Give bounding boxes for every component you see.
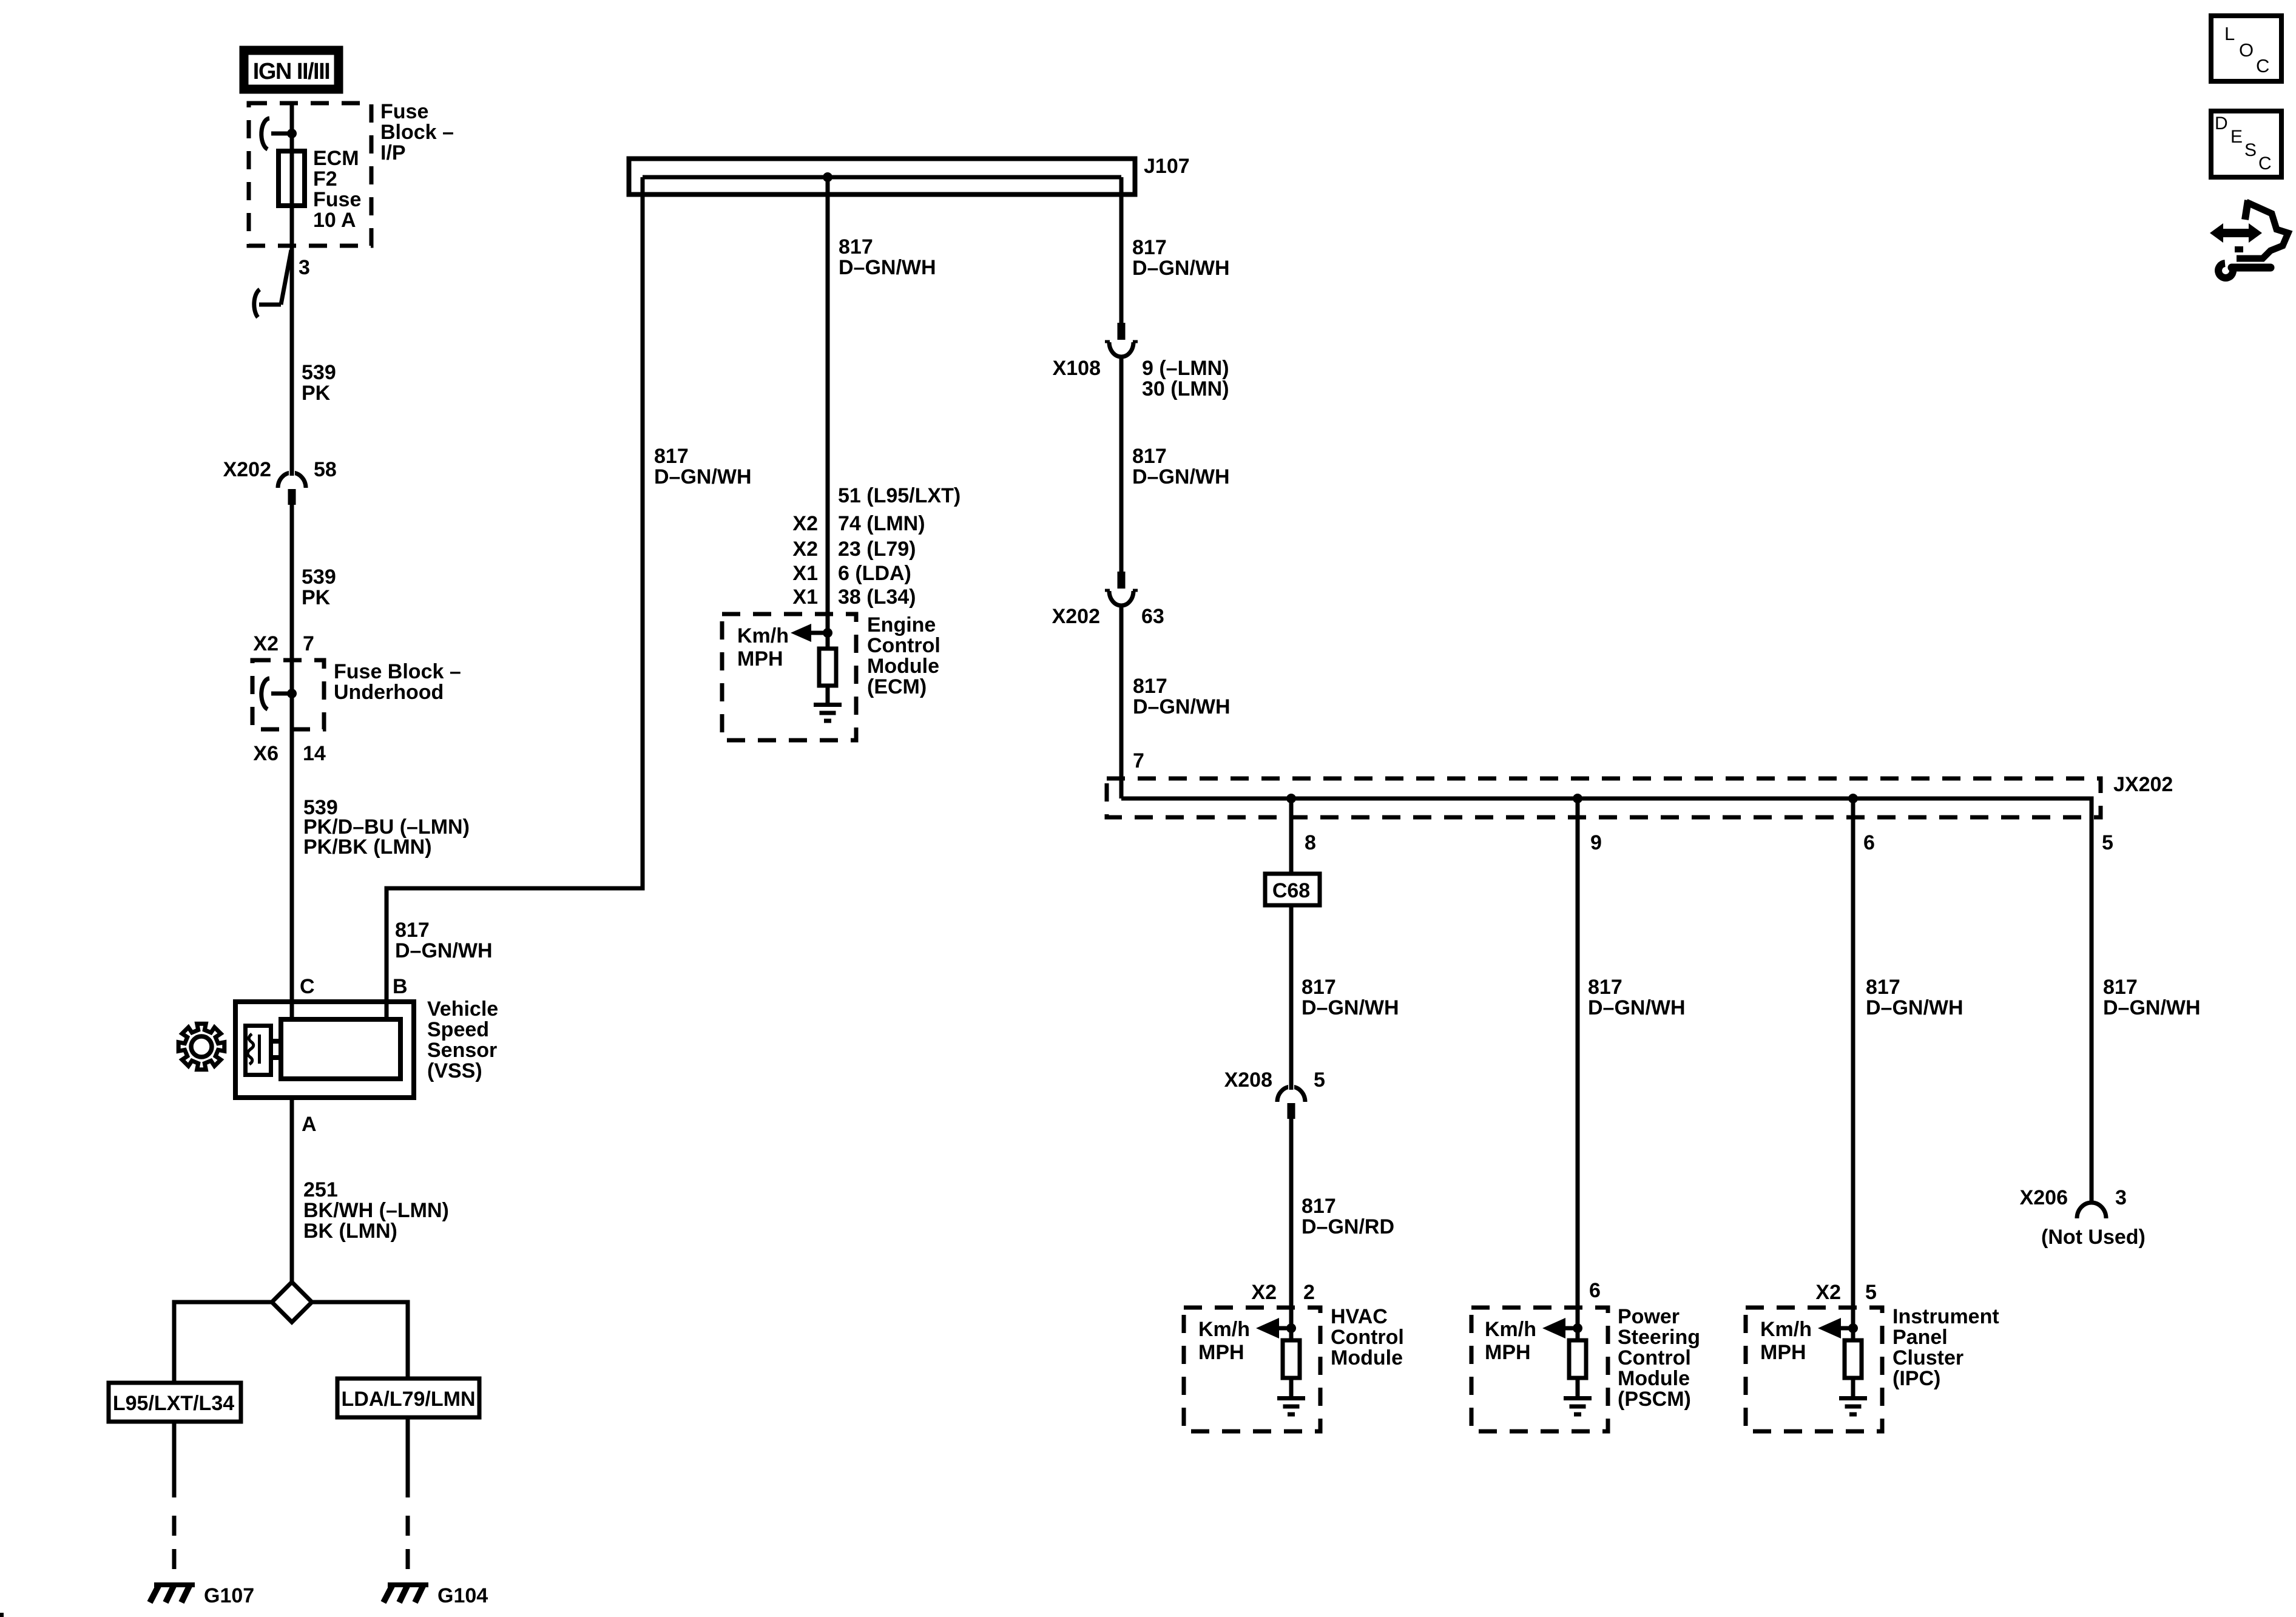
svg-text:IGN II/III: IGN II/III xyxy=(253,59,329,84)
wire label 817 D-GN/WH (C68 branch) xyxy=(1302,976,1399,1019)
PSCM: internal ground xyxy=(1564,1378,1592,1414)
PSCM: speed signal resistor xyxy=(1569,1328,1586,1378)
svg-text:D: D xyxy=(2215,113,2228,133)
fuse F2 10A xyxy=(279,151,305,206)
fuse block I/P dashed box xyxy=(249,103,371,246)
svg-text:6: 6 xyxy=(1863,831,1875,854)
wire: C68 to X208 xyxy=(1289,905,1294,1086)
svg-text:X206: X206 xyxy=(2020,1186,2068,1209)
engine option box LDA/L79/LMN xyxy=(337,1379,479,1417)
PSCM: Km/h-MPH arrow xyxy=(1485,1318,1582,1364)
svg-text:(VSS): (VSS) xyxy=(427,1059,482,1082)
wire: splice to L95 branch xyxy=(174,1302,272,1383)
svg-text:Module: Module xyxy=(867,655,939,678)
junction to pin 9 xyxy=(1573,794,1582,803)
wire label 251 BK/WH BK xyxy=(303,1178,449,1243)
svg-text:Km/h: Km/h xyxy=(1198,1318,1250,1341)
svg-text:5: 5 xyxy=(1865,1281,1877,1304)
DESC reference icon xyxy=(2211,111,2281,177)
fuse F2 label xyxy=(313,147,361,232)
svg-text:LDA/L79/LMN: LDA/L79/LMN xyxy=(342,1388,476,1411)
svg-text:Panel: Panel xyxy=(1893,1326,1948,1349)
wire: IGN feed into fuse xyxy=(290,103,294,151)
ECM Km/h-MPH arrow xyxy=(737,624,832,670)
svg-text:JX202: JX202 xyxy=(2113,773,2173,796)
connector X206 labels xyxy=(2020,1186,2146,1249)
VSS pickup coil box xyxy=(246,1026,271,1075)
svg-text:Fuse: Fuse xyxy=(313,188,361,211)
VSS inner body xyxy=(281,1019,400,1079)
HVAC: speed signal resistor xyxy=(1283,1328,1300,1378)
vehicle speed sensor VSS outer case xyxy=(235,1002,414,1098)
svg-text:G107: G107 xyxy=(204,1584,254,1607)
power feed label IGN II/III xyxy=(244,50,339,89)
svg-text:5: 5 xyxy=(2102,831,2113,854)
svg-text:D–GN/RD: D–GN/RD xyxy=(1302,1215,1394,1238)
wire label 817 D-GN/WH (VSS B) xyxy=(395,919,493,962)
JX202 internal bus xyxy=(1121,798,2092,1203)
svg-text:Instrument: Instrument xyxy=(1893,1305,1999,1328)
svg-text:Sensor: Sensor xyxy=(427,1039,497,1062)
wire label 817 D-GN/WH (into JX202) xyxy=(1133,675,1231,718)
wire: 817 branch to VSS pin B xyxy=(387,177,643,1017)
IPC label xyxy=(1893,1305,1999,1390)
svg-text:C: C xyxy=(300,975,315,998)
wire label 817 D-GN/WH (ECM branch) xyxy=(839,235,936,279)
svg-text:L: L xyxy=(2224,23,2235,44)
pin X2 / 5 (IPC) xyxy=(1815,1281,1877,1304)
svg-text:Km/h: Km/h xyxy=(1485,1318,1536,1341)
svg-text:51 (L95/LXT): 51 (L95/LXT) xyxy=(838,484,961,507)
svg-text:Speed: Speed xyxy=(427,1018,489,1041)
LOC reference icon xyxy=(2211,16,2281,81)
IPC: internal ground xyxy=(1839,1378,1867,1414)
svg-text:539: 539 xyxy=(302,565,336,589)
VSS label xyxy=(427,998,498,1082)
svg-text:X208: X208 xyxy=(1224,1068,1272,1092)
svg-text:X2: X2 xyxy=(792,538,818,561)
wire: JX202 pin 6 to IPC xyxy=(1851,798,1855,1328)
svg-text:MPH: MPH xyxy=(1198,1341,1244,1364)
svg-text:D–GN/WH: D–GN/WH xyxy=(1132,257,1230,280)
junction to pin 6 xyxy=(1848,794,1858,803)
svg-text:539: 539 xyxy=(302,361,336,384)
wire label 817 D-GN/WH (X206 branch) xyxy=(2103,976,2201,1019)
svg-text:5: 5 xyxy=(1314,1068,1325,1092)
wire: X202-63 into JX202 xyxy=(1119,606,1124,798)
svg-text:7: 7 xyxy=(303,632,314,655)
svg-text:D–GN/WH: D–GN/WH xyxy=(1588,996,1686,1019)
svg-text:D–GN/WH: D–GN/WH xyxy=(839,256,936,279)
svg-text:C: C xyxy=(2258,154,2272,174)
J107 internal bus wire xyxy=(643,175,1121,180)
wire label 817 D-GN/WH (PSCM branch) xyxy=(1588,976,1686,1019)
fuse block underhood dashed box xyxy=(252,660,324,729)
pin X6 / 14 xyxy=(253,742,326,765)
HVAC: Km/h-MPH arrow xyxy=(1198,1318,1296,1364)
svg-text:D–GN/WH: D–GN/WH xyxy=(1302,996,1399,1019)
in-line connector C68 xyxy=(1265,874,1320,905)
svg-text:D–GN/WH: D–GN/WH xyxy=(2103,996,2201,1019)
connector X202/58 labels xyxy=(223,458,337,481)
svg-text:9 (–LMN): 9 (–LMN) xyxy=(1142,357,1229,380)
connector X202/63 labels xyxy=(1052,605,1164,628)
svg-text:D–GN/WH: D–GN/WH xyxy=(654,465,752,488)
IPC: Km/h-MPH arrow xyxy=(1760,1318,1858,1364)
svg-text:817: 817 xyxy=(1302,1195,1336,1218)
svg-text:Cluster: Cluster xyxy=(1893,1346,1963,1369)
connector X206 pin 3 (not used) xyxy=(2077,1203,2106,1218)
svg-text:X2: X2 xyxy=(253,632,279,655)
svg-text:817: 817 xyxy=(839,235,873,258)
svg-text:L95/LXT/L34: L95/LXT/L34 xyxy=(113,1392,234,1415)
wire label 817 D-GN/RD xyxy=(1302,1195,1394,1238)
svg-text:817: 817 xyxy=(395,919,430,942)
svg-text:817: 817 xyxy=(1132,236,1167,259)
svg-text:A: A xyxy=(302,1113,317,1136)
svg-text:J107: J107 xyxy=(1144,155,1190,178)
wire: X108 to X202-63 xyxy=(1119,357,1124,573)
HVAC control module dashed box xyxy=(1184,1308,1320,1431)
wire label 539 PK/D-BU PK/BK xyxy=(303,796,470,859)
svg-text:58: 58 xyxy=(314,458,337,481)
wire label 817 D-GN/WH (left drop) xyxy=(654,445,752,488)
svg-text:X202: X202 xyxy=(223,458,271,481)
svg-text:(IPC): (IPC) xyxy=(1893,1367,1940,1390)
svg-text:Km/h: Km/h xyxy=(737,624,789,647)
svg-text:X2: X2 xyxy=(792,512,818,535)
splice pack J107 housing xyxy=(629,159,1135,195)
svg-text:7: 7 xyxy=(1133,749,1144,772)
svg-text:251: 251 xyxy=(303,1178,338,1201)
svg-text:X1: X1 xyxy=(792,586,818,609)
wire: VSS pin A to splice xyxy=(290,1098,294,1284)
wire label 817 D-GN/WH (mid right) xyxy=(1132,445,1230,488)
wire label 817 D-GN/WH (IPC branch) xyxy=(1866,976,1963,1019)
svg-text:Module: Module xyxy=(1331,1346,1403,1369)
PSCM label xyxy=(1618,1305,1700,1411)
ECM pin list xyxy=(792,484,961,609)
fuse block output tap xyxy=(254,250,291,317)
junction to pin 8 xyxy=(1286,794,1296,803)
wire: J107 to ECM xyxy=(826,177,830,633)
ground G107 xyxy=(150,1584,254,1607)
svg-text:Fuse: Fuse xyxy=(380,100,428,123)
connector X108 pin 9/30 xyxy=(1105,323,1138,357)
engine option box L95/LXT/L34 xyxy=(109,1383,241,1422)
svg-text:817: 817 xyxy=(1133,675,1167,698)
svg-text:D–GN/WH: D–GN/WH xyxy=(1133,695,1231,718)
VSS drive gear icon xyxy=(178,1024,225,1070)
svg-text:817: 817 xyxy=(1866,976,1900,999)
wire label 539 PK (2) xyxy=(302,565,336,609)
svg-text:Module: Module xyxy=(1618,1367,1690,1390)
wire label 539 PK xyxy=(302,361,336,405)
svg-text:9: 9 xyxy=(1590,831,1602,854)
svg-text:Engine: Engine xyxy=(867,613,936,636)
ECM internal ground xyxy=(814,686,842,721)
svg-text:10 A: 10 A xyxy=(313,209,356,232)
wire through underhood block xyxy=(290,660,294,729)
ECM label xyxy=(867,613,940,698)
wire: L95 box to G107 (part solid, part dashed) xyxy=(172,1422,177,1585)
wire: X208 to HVAC module xyxy=(1289,1118,1294,1328)
ECM speed signal resistor xyxy=(819,633,836,686)
junction on J107 bus xyxy=(823,172,832,182)
splice diamond xyxy=(272,1282,312,1322)
svg-text:14: 14 xyxy=(303,742,326,765)
ground G104 xyxy=(383,1584,488,1607)
svg-text:D–GN/WH: D–GN/WH xyxy=(1866,996,1963,1019)
svg-text:8: 8 xyxy=(1305,831,1316,854)
svg-text:(Not Used): (Not Used) xyxy=(2041,1226,2146,1249)
HVAC label xyxy=(1331,1305,1404,1369)
svg-text:3: 3 xyxy=(299,256,310,279)
connector X208 pin 5 xyxy=(1277,1081,1305,1119)
svg-text:S: S xyxy=(2244,140,2257,160)
svg-text:(ECM): (ECM) xyxy=(867,675,927,698)
svg-text:F2: F2 xyxy=(313,167,337,191)
PSCM dashed box xyxy=(1471,1308,1608,1431)
IPC dashed box xyxy=(1746,1308,1882,1431)
splice pack JX202 dashed housing xyxy=(1107,778,2101,817)
wire: X202-58 to underhood fuse block xyxy=(290,504,294,660)
svg-text:Block –: Block – xyxy=(380,121,454,144)
svg-text:Control: Control xyxy=(1618,1346,1691,1369)
wire: splice to LDA branch xyxy=(312,1302,408,1379)
svg-text:Fuse Block –: Fuse Block – xyxy=(334,660,461,683)
wire: fuse output xyxy=(290,206,294,472)
svg-text:23 (L79): 23 (L79) xyxy=(838,538,916,561)
connector X202 pin 58 xyxy=(278,467,306,505)
svg-text:PK: PK xyxy=(302,586,331,609)
svg-text:PK/BK (LMN): PK/BK (LMN) xyxy=(303,836,432,859)
wire: J107 right drop to X108 xyxy=(1119,177,1124,324)
svg-text:O: O xyxy=(2239,39,2254,61)
svg-text:817: 817 xyxy=(1588,976,1622,999)
svg-text:63: 63 xyxy=(1141,605,1164,628)
svg-text:X202: X202 xyxy=(1052,605,1100,628)
svg-text:D–GN/WH: D–GN/WH xyxy=(1132,465,1230,488)
underhood fuse block tap xyxy=(262,678,297,709)
wire: JX202 pin 8 to C68 xyxy=(1289,798,1294,872)
svg-text:MPH: MPH xyxy=(1760,1341,1806,1364)
svg-text:Vehicle: Vehicle xyxy=(427,998,498,1021)
wire: underhood block to VSS pin C xyxy=(290,729,294,1017)
svg-text:MPH: MPH xyxy=(737,647,783,670)
svg-text:(PSCM): (PSCM) xyxy=(1618,1388,1691,1411)
svg-text:Km/h: Km/h xyxy=(1760,1318,1812,1341)
svg-text:6: 6 xyxy=(1589,1279,1601,1302)
svg-text:X6: X6 xyxy=(253,742,279,765)
svg-text:817: 817 xyxy=(1132,445,1167,468)
svg-text:6 (LDA): 6 (LDA) xyxy=(838,562,911,585)
svg-text:Control: Control xyxy=(867,634,940,657)
HVAC: internal ground xyxy=(1277,1378,1305,1414)
connector X208 labels xyxy=(1224,1068,1325,1092)
svg-text:C: C xyxy=(2256,55,2269,76)
svg-text:817: 817 xyxy=(2103,976,2138,999)
connector X202 pin 63 xyxy=(1105,572,1138,606)
svg-text:HVAC: HVAC xyxy=(1331,1305,1388,1328)
svg-text:3: 3 xyxy=(2115,1186,2127,1209)
svg-text:2: 2 xyxy=(1303,1281,1315,1304)
wire: JX202 pin 9 to PSCM xyxy=(1576,798,1580,1328)
svg-text:74 (LMN): 74 (LMN) xyxy=(838,512,925,535)
svg-text:38 (L34): 38 (L34) xyxy=(838,586,916,609)
diagnostic (arrow/connector/wrench) icon xyxy=(2210,200,2288,278)
svg-text:Steering: Steering xyxy=(1618,1326,1700,1349)
svg-text:X2: X2 xyxy=(1815,1281,1841,1304)
VSS coil stubs xyxy=(271,1041,281,1058)
svg-text:B: B xyxy=(393,975,408,998)
fuse block tap (battery side) xyxy=(262,118,297,149)
svg-text:D–GN/WH: D–GN/WH xyxy=(395,939,493,962)
svg-text:BK/WH (–LMN): BK/WH (–LMN) xyxy=(303,1199,449,1222)
svg-text:Control: Control xyxy=(1331,1326,1404,1349)
svg-text:X2: X2 xyxy=(1251,1281,1277,1304)
svg-text:E: E xyxy=(2230,127,2243,147)
svg-text:X108: X108 xyxy=(1053,357,1101,380)
wire label 817 D-GN/WH (top right) xyxy=(1132,236,1230,280)
svg-text:ECM: ECM xyxy=(313,147,359,170)
ECM dashed box xyxy=(722,614,856,740)
svg-text:Underhood: Underhood xyxy=(334,681,444,704)
pin X2 / 7 xyxy=(253,632,314,655)
svg-text:PK: PK xyxy=(302,382,331,405)
pin X2 / 2 (HVAC) xyxy=(1251,1281,1315,1304)
svg-text:X1: X1 xyxy=(792,562,818,585)
fuse block I/P label xyxy=(380,100,454,164)
svg-text:MPH: MPH xyxy=(1485,1341,1531,1364)
stray page dot xyxy=(0,1613,4,1617)
wire: LDA box to G104 xyxy=(406,1417,410,1585)
svg-text:817: 817 xyxy=(1302,976,1336,999)
svg-text:C68: C68 xyxy=(1272,879,1310,902)
IPC: speed signal resistor xyxy=(1845,1328,1862,1378)
fuse block underhood label xyxy=(334,660,461,704)
svg-text:BK (LMN): BK (LMN) xyxy=(303,1220,397,1243)
svg-text:Power: Power xyxy=(1618,1305,1680,1328)
svg-text:817: 817 xyxy=(654,445,689,468)
svg-text:I/P: I/P xyxy=(380,141,406,164)
connector X108 labels xyxy=(1053,357,1229,400)
svg-text:G104: G104 xyxy=(437,1584,488,1607)
svg-text:30 (LMN): 30 (LMN) xyxy=(1142,377,1229,400)
